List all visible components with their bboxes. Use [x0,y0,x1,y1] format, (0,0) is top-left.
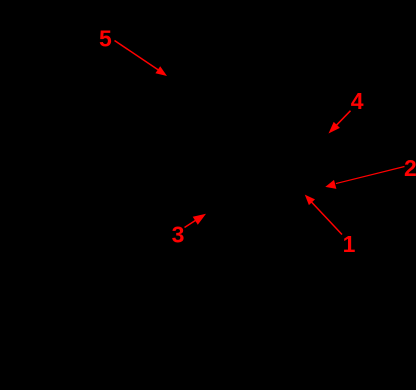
arrow 3 [185,214,207,228]
arrow 4 [329,111,351,134]
arrow 1 [305,195,342,235]
arrow 2 [325,167,404,189]
svg-text:2: 2 [404,155,416,181]
svg-text:3: 3 [172,222,185,248]
arrow 5 [115,41,168,77]
svg-text:5: 5 [99,26,112,52]
svg-text:4: 4 [351,88,364,114]
svg-text:1: 1 [343,231,356,257]
